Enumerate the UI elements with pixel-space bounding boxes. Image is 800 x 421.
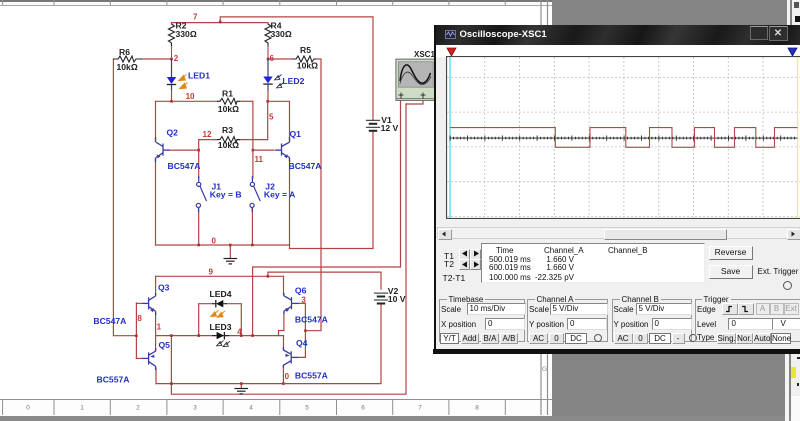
switch J1 <box>196 176 206 212</box>
wire net 3 Q6 base to Q4 base <box>298 303 305 357</box>
net labels <box>137 12 306 381</box>
wire bus 0 to V1 minus <box>290 132 374 249</box>
svg-text:BC547A: BC547A <box>93 316 126 326</box>
svg-text:Key = B: Key = B <box>210 189 242 199</box>
svg-text:10: 10 <box>186 92 195 101</box>
scope screen <box>446 56 800 219</box>
wire node 7 riser to V1 <box>220 17 373 120</box>
svg-text:8: 8 <box>137 314 142 323</box>
Trigger group <box>695 295 800 342</box>
node 6 junction <box>267 58 270 61</box>
oscilloscope icon XSC1 <box>396 59 436 100</box>
transistor Q6 <box>284 293 299 314</box>
battery V1 <box>366 120 380 131</box>
svg-text:BC557A: BC557A <box>295 371 328 381</box>
svg-text:11: 11 <box>255 155 264 164</box>
wire Q5 emitter rise <box>155 336 157 351</box>
node 10 junction <box>170 100 173 103</box>
wire node 9 left corner to Q3 collector <box>155 276 157 295</box>
svg-text:10 V: 10 V <box>388 294 406 304</box>
svg-text:2: 2 <box>174 54 179 63</box>
bottom grey bar <box>0 416 800 421</box>
resistor R3 <box>217 137 240 143</box>
resistor R6 <box>113 56 142 62</box>
svg-text:BC547A: BC547A <box>168 161 201 171</box>
svg-text:6: 6 <box>270 54 275 63</box>
wire node 9 <box>156 275 284 277</box>
left channel edge cyan <box>449 57 451 218</box>
transistor Q1 <box>275 137 290 162</box>
svg-text:5: 5 <box>269 113 274 122</box>
svg-text:4: 4 <box>237 328 242 337</box>
wire bottom bus Q5-Q4 collectors <box>156 383 283 385</box>
svg-text:3: 3 <box>301 296 306 305</box>
wire node 7 R2top-R4top <box>172 23 269 24</box>
node 9 junction <box>267 275 270 278</box>
svg-text:330Ω: 330Ω <box>176 29 197 39</box>
channel A trace <box>450 128 797 148</box>
wire Q1 base <box>253 149 274 151</box>
node 7 junction <box>219 21 222 24</box>
wire LED2 bottom lead <box>267 90 269 101</box>
wire Q3 emitter drop <box>155 313 157 336</box>
Channel B group <box>612 295 692 342</box>
svg-text:Key = A: Key = A <box>264 189 295 199</box>
top ruler remnant strip <box>0 0 552 2</box>
wire net 5 to Q1 collector <box>268 101 290 140</box>
wire J2 bottom to bus <box>251 209 253 246</box>
group boxes row <box>436 295 800 346</box>
svg-text:R1: R1 <box>222 88 233 98</box>
svg-text:R6: R6 <box>119 47 130 57</box>
T1 arrows <box>459 249 470 260</box>
wire node 9 to V2 plus <box>268 272 381 289</box>
wire Q1 emitter to bus 0 <box>289 159 291 245</box>
svg-text:LED2: LED2 <box>282 76 304 86</box>
wire Q4 emitter rise <box>283 336 285 350</box>
wire node 9 right corner to Q6 collector <box>283 276 285 295</box>
svg-text:Q1: Q1 <box>290 129 302 139</box>
wire Q5 collector drop <box>155 368 157 384</box>
wire Q2 collector riser <box>155 101 157 140</box>
ground upper <box>224 245 238 264</box>
ground lower <box>235 384 249 394</box>
marker strip <box>436 45 800 57</box>
transistor Q5 <box>142 348 156 370</box>
svg-text:Q4: Q4 <box>296 338 308 348</box>
horizontal scrollbar <box>437 227 800 239</box>
wire J1 bottom to bus <box>198 209 200 246</box>
LED4 branch junctions <box>197 334 200 337</box>
wire net 8 base rail Q3/Q5 <box>136 303 141 359</box>
T2 arrows <box>459 259 470 270</box>
wire bus node 0 <box>156 244 290 246</box>
node 4 scope junction <box>251 334 254 337</box>
trigger marker T1 red <box>447 48 456 56</box>
LED LED2 <box>263 59 283 90</box>
wire node 12 to R3 <box>199 140 217 151</box>
resistor R5 <box>293 56 317 62</box>
net 5 junction <box>266 100 269 103</box>
svg-text:LED1: LED1 <box>188 70 210 80</box>
LED LED3 <box>212 332 230 347</box>
resistor R4 <box>265 24 271 59</box>
svg-text:BC547A: BC547A <box>289 161 322 171</box>
wire V2 minus to bottom bus <box>283 305 381 384</box>
title bar <box>436 25 800 45</box>
svg-text:BC547A: BC547A <box>295 314 328 324</box>
svg-text:LED4: LED4 <box>210 289 232 299</box>
Reverse button <box>709 246 753 260</box>
svg-text:10kΩ: 10kΩ <box>218 140 239 150</box>
net 11 base junction <box>252 149 255 152</box>
resistor R2 <box>169 24 175 59</box>
bottom ruler strip <box>0 399 552 417</box>
wire node 6 LED2 top to R5 <box>268 58 293 60</box>
svg-text:10kΩ: 10kΩ <box>218 104 239 114</box>
wire node 12 Q2 base <box>169 150 199 178</box>
wire Q2 emitter to bus 0 <box>155 159 157 245</box>
Save button <box>709 265 753 279</box>
wire Q6 emitter jog to node 4 <box>279 312 284 336</box>
svg-text:R3: R3 <box>222 125 233 135</box>
svg-text:10kΩ: 10kΩ <box>297 61 318 71</box>
switch J2 <box>250 176 260 212</box>
wire net 8 left rail R6 down <box>113 59 136 336</box>
svg-text:R5: R5 <box>300 45 311 55</box>
svg-text:1: 1 <box>157 323 162 332</box>
svg-text:12: 12 <box>203 130 212 139</box>
Timebase group <box>439 295 525 342</box>
svg-text:12 V: 12 V <box>381 123 399 133</box>
transistor Q3 <box>142 293 156 315</box>
svg-text:9: 9 <box>209 268 214 277</box>
bus 0 junctions <box>197 244 200 247</box>
wire scope channel B probe jog <box>406 100 423 104</box>
wire Q4 collector drop <box>282 365 284 384</box>
wire LED4 branch right stub <box>227 304 241 336</box>
readout panel <box>440 242 797 283</box>
ext trigger circle <box>783 281 792 290</box>
net 8 junction <box>135 334 138 337</box>
resistor R1 <box>217 98 240 104</box>
transistor Q2 <box>156 137 170 162</box>
transistor Q4 <box>283 347 298 368</box>
bottom bus junctions <box>240 382 243 385</box>
right channel edge yellow <box>797 57 799 218</box>
wire R5 right rail down <box>305 59 321 331</box>
net 3 rail junction <box>304 329 307 332</box>
svg-text:0: 0 <box>285 372 290 381</box>
wire net 11 R1 right to Q1 base and J2 <box>252 101 254 178</box>
wire node 1 / node 4 <box>156 335 284 337</box>
svg-text:Q3: Q3 <box>158 283 170 293</box>
svg-text:Q5: Q5 <box>159 340 171 350</box>
svg-text:330Ω: 330Ω <box>271 29 292 39</box>
svg-text:10kΩ: 10kΩ <box>117 62 138 72</box>
svg-text:Q2: Q2 <box>167 127 179 137</box>
node 12 junction <box>197 149 200 152</box>
window bottom border <box>433 349 800 354</box>
wire LED1 to node 10 <box>171 90 173 101</box>
trigger marker T2 blue <box>788 48 797 56</box>
battery V2 <box>374 293 388 303</box>
right edge mini panels <box>787 0 790 25</box>
svg-text:BC557A: BC557A <box>97 374 130 384</box>
Channel A group <box>527 295 608 342</box>
LED LED1 <box>167 59 188 90</box>
LED LED4 <box>211 300 227 317</box>
wire node 1 to scope channel B <box>171 104 406 394</box>
node 2 junction <box>170 58 173 61</box>
node 1 scope junction <box>170 334 173 337</box>
grey desktop right of sheet <box>552 0 800 421</box>
svg-text:7: 7 <box>193 12 198 21</box>
time axis with ticks <box>450 136 798 141</box>
wire net 5 R3 right to LED2 bottom <box>237 101 268 139</box>
sheet right border zone <box>541 0 548 415</box>
oscilloscope window XSC1 <box>434 25 800 354</box>
svg-text:Q6: Q6 <box>295 286 307 296</box>
wire node 10 <box>156 100 253 102</box>
svg-text:LED3: LED3 <box>210 322 232 332</box>
svg-text:XSC1: XSC1 <box>414 50 435 59</box>
wire LED4 branch left stub <box>199 304 212 336</box>
wire node 4 to scope channel A <box>253 101 401 336</box>
svg-text:0: 0 <box>212 237 217 246</box>
wire node 2 R6-LED1 <box>142 58 172 60</box>
